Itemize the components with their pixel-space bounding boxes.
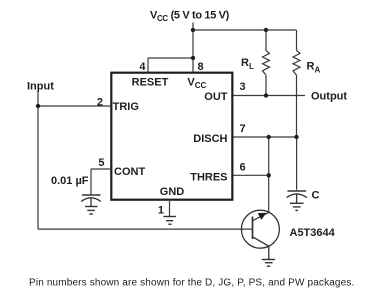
wire RL bottom segment [265, 75, 267, 95]
wire pin3 OUT [233, 95, 305, 97]
transistor Q1 upper diagonal [253, 212, 270, 220]
svg-text:VCC: VCC [187, 76, 206, 90]
capacitor C1 0.01 uF top plate [82, 194, 101, 196]
ground under C1 bar2 [87, 209, 95, 211]
wire pin1 GND stub [169, 201, 171, 216]
svg-text:4: 4 [139, 61, 146, 73]
resistor RA zigzag [293, 51, 300, 76]
ground under C1 bar3 [89, 213, 93, 215]
capacitor C1 stub [90, 198, 92, 207]
svg-text:0.01 µF: 0.01 µF [51, 175, 89, 187]
svg-text:1: 1 [158, 205, 164, 217]
wire pin7 DISCH [233, 136, 297, 138]
wire RA bottom segment [296, 75, 298, 137]
transistor Q1 circle [241, 210, 279, 248]
svg-text:7: 7 [240, 123, 246, 135]
ground under C bar2 [293, 206, 301, 208]
node DISCH junction [267, 135, 271, 139]
svg-text:Output: Output [311, 91, 347, 103]
wire pin2 TRIG [38, 105, 110, 107]
ground pin1 bar3 [168, 223, 171, 225]
ground pin1 bar1 [163, 216, 176, 218]
wire pin4 jumper horizontal [148, 57, 193, 59]
wire pin6 THRES [233, 174, 269, 176]
capacitor C1 0.01 uF curved plate [81, 198, 101, 202]
node Vcc rail junction [191, 28, 195, 32]
wire Vcc supply vertical [192, 23, 194, 73]
svg-text:CONT: CONT [114, 166, 145, 178]
node RL out junction [264, 93, 268, 97]
svg-text:5: 5 [98, 157, 104, 169]
svg-text:RA: RA [307, 61, 321, 75]
wire RA to capacitor C vertical [296, 137, 298, 190]
ground under Q1 bar2 [265, 262, 273, 264]
IC U1 555 timer box [111, 73, 232, 200]
svg-text:DISCH: DISCH [193, 133, 227, 145]
wire DISCH to collector vertical [268, 137, 270, 212]
ground under Q1 bar1 [262, 259, 275, 261]
wire RA top segment [296, 30, 298, 51]
resistor RL zigzag [263, 51, 270, 76]
ground pin1 bar2 [166, 220, 173, 222]
transistor Q1 lower diagonal [253, 237, 269, 246]
node pin8 jumper junction [191, 56, 195, 60]
svg-text:A5T3644: A5T3644 [290, 227, 336, 239]
svg-text:6: 6 [240, 162, 246, 174]
capacitor C top plate [287, 190, 306, 192]
svg-text:Pin numbers shown are shown fo: Pin numbers shown are shown for the D, J… [29, 278, 354, 289]
wire pin5 CONT stub [91, 168, 110, 170]
node input trig junction [36, 104, 40, 108]
svg-text:RESET: RESET [132, 76, 169, 88]
capacitor C curved plate [287, 194, 307, 198]
svg-text:THRES: THRES [190, 171, 227, 183]
ground under C1 bar1 [85, 206, 98, 208]
ground under C bar1 [290, 202, 304, 204]
svg-text:2: 2 [97, 97, 103, 109]
svg-text:RL: RL [241, 57, 254, 71]
svg-text:Input: Input [27, 81, 54, 93]
svg-text:C: C [312, 190, 320, 202]
svg-text:3: 3 [240, 81, 246, 93]
node RL top junction [264, 28, 268, 32]
wire top rail horizontal [193, 29, 297, 31]
svg-text:OUT: OUT [204, 91, 228, 103]
wire pin5 to capacitor vertical [90, 169, 92, 195]
wire pin4 stub [147, 58, 149, 72]
ground under Q1 bar3 [267, 265, 270, 267]
node RA DISCH junction [294, 135, 298, 139]
node THRES junction [267, 173, 271, 177]
svg-text:GND: GND [160, 186, 185, 198]
wire emitter to ground [268, 246, 270, 259]
transistor Q1 base bar [252, 217, 254, 240]
wire bottom horizontal to base [38, 228, 252, 230]
ground under C bar3 [295, 209, 298, 211]
wire input vertical [37, 92, 39, 230]
svg-text:VCC (5 V to 15 V): VCC (5 V to 15 V) [150, 10, 230, 24]
svg-text:TRIG: TRIG [113, 101, 139, 113]
transistor Q1 arrow [258, 213, 267, 220]
wire RL top segment [265, 30, 267, 51]
svg-text:8: 8 [198, 61, 204, 73]
capacitor C stub [296, 194, 298, 203]
